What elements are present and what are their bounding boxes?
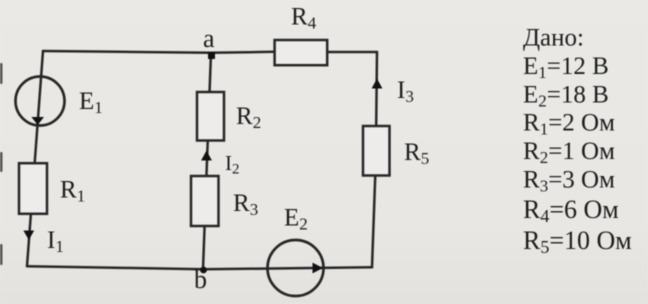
node a [208, 52, 215, 59]
resistor R2 [197, 92, 224, 141]
resistor R3 [191, 176, 219, 226]
svg-text:Дано:: Дано: [523, 25, 584, 52]
node b [200, 267, 207, 274]
wire: node a to R4 [211, 52, 275, 53]
svg-text:R1=2 Ом: R1=2 Ом [523, 110, 615, 139]
wire: right vertical branch [372, 52, 377, 267]
svg-text:a: a [203, 24, 215, 53]
wire bottom: node b to left corner [27, 266, 203, 269]
svg-text:E1=12 В: E1=12 В [523, 53, 609, 82]
svg-text:R5=10 Ом: R5=10 Ом [523, 226, 632, 257]
svg-text:E2=18 В: E2=18 В [523, 82, 609, 111]
voltage source E2 [268, 240, 324, 296]
current arrow I2 [201, 151, 212, 161]
svg-text:b: b [194, 265, 207, 294]
voltage source E1 [16, 77, 65, 126]
resistor R5 [363, 126, 390, 176]
scan edge artifacts [0, 63, 3, 265]
current arrow I3 [372, 79, 383, 89]
wire: middle vertical branch [203, 53, 211, 269]
wire: left vertical branch [27, 51, 43, 266]
wire top: left corner to node a [43, 51, 211, 53]
given-data text block [523, 25, 632, 258]
resistor R1 [19, 163, 47, 214]
resistor R4 [275, 40, 328, 65]
wire: R4 to top-right corner [327, 51, 377, 54]
wire bottom: right corner to node b [203, 267, 372, 269]
svg-text:R2=1 Ом: R2=1 Ом [523, 138, 615, 167]
svg-text:R4=6 Ом: R4=6 Ом [523, 195, 619, 226]
svg-text:R3=3 Ом: R3=3 Ом [523, 167, 615, 196]
current arrow I1 [23, 231, 34, 241]
